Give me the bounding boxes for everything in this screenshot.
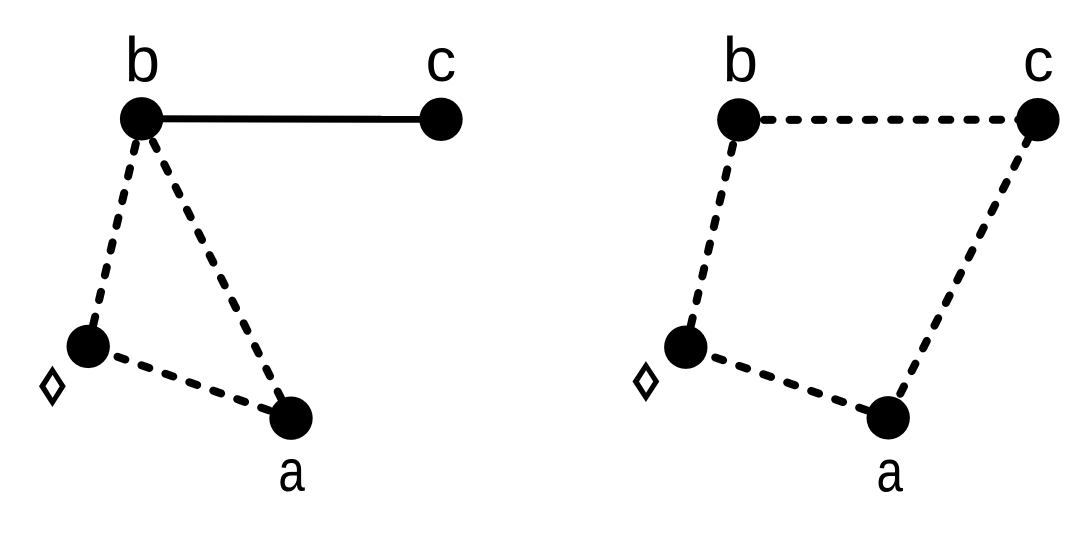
- svg-text:b: b: [125, 26, 160, 96]
- svg-text:a: a: [876, 438, 903, 504]
- svg-text:c: c: [1023, 26, 1054, 94]
- svg-text:b: b: [723, 26, 758, 96]
- svg-text:a: a: [278, 438, 305, 504]
- svg-text:c: c: [426, 26, 457, 94]
